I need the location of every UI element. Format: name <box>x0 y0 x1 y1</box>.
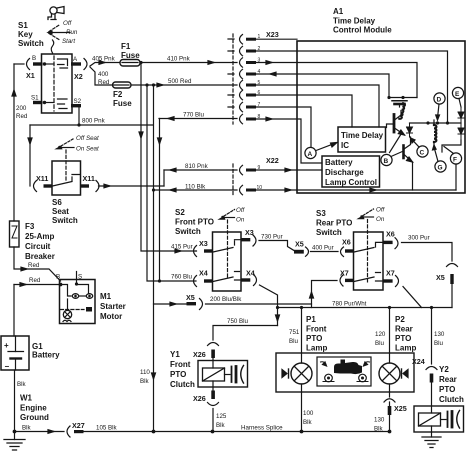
svg-text:Time Delay: Time Delay <box>333 17 376 26</box>
diode D1 <box>407 123 413 137</box>
svg-text:Discharge: Discharge <box>325 168 364 177</box>
bundle vertical: 410 Pnk branch down to 415 Pur <box>141 63 196 252</box>
node wire row <box>410 122 462 124</box>
capacitor C1 <box>392 100 407 102</box>
svg-text:IC: IC <box>341 141 349 150</box>
S3 terminal X6 right <box>383 241 393 244</box>
svg-text:X5: X5 <box>186 293 195 302</box>
svg-text:2: 2 <box>258 46 261 52</box>
lamps box <box>276 353 414 392</box>
svg-text:Fuse: Fuse <box>113 99 132 108</box>
svg-text:X5: X5 <box>295 240 304 249</box>
svg-text:120: 120 <box>375 331 386 338</box>
svg-text:P1: P1 <box>306 315 316 324</box>
transistor Q1 <box>393 115 396 133</box>
circled D <box>434 93 445 104</box>
wire 800 Pnk: seat switch riser to bundle <box>30 124 153 126</box>
S2 terminal X3 right <box>241 238 250 241</box>
wire 400 Pur: X5 to S3 X6 left <box>311 251 339 253</box>
S3 terminal X7 left <box>345 279 354 282</box>
battery plates <box>8 351 24 353</box>
svg-text:Y2: Y2 <box>439 365 449 374</box>
connector arc above Y1 <box>208 343 219 346</box>
svg-text:Control Module: Control Module <box>333 26 392 35</box>
X23 pin 6 arc and plug <box>240 90 243 100</box>
wire 110 Blk: X22 pin10 to long ground drop <box>154 189 238 191</box>
seat switch dashed actuator <box>65 150 67 182</box>
svg-text:P2: P2 <box>395 315 405 324</box>
svg-text:400 Pur: 400 Pur <box>312 245 334 252</box>
svg-text:Off: Off <box>63 20 73 27</box>
S6 connector arcs X11 <box>34 181 37 192</box>
svg-text:On: On <box>376 216 385 223</box>
svg-text:X2: X2 <box>74 72 83 81</box>
svg-text:Rear: Rear <box>395 325 413 334</box>
M1 internal motor <box>67 299 69 310</box>
wire: X2 split to F1 (405 Pnk) <box>90 63 120 67</box>
svg-text:Switch: Switch <box>175 227 201 236</box>
svg-text:S3: S3 <box>316 209 326 218</box>
bottom harness rail <box>15 431 65 433</box>
svg-text:Start: Start <box>62 38 75 45</box>
circled A <box>305 147 316 158</box>
svg-text:B: B <box>32 55 36 62</box>
svg-text:S6: S6 <box>52 198 62 207</box>
svg-text:800 Pnk: 800 Pnk <box>82 118 106 125</box>
Time Delay IC box <box>338 127 386 152</box>
Y1 solenoid coil <box>203 368 225 381</box>
Y1 front PTO clutch box <box>198 361 248 388</box>
svg-text:Off Seat: Off Seat <box>76 135 99 142</box>
S3 terminal X6 left <box>345 249 354 252</box>
svg-text:Engine: Engine <box>20 404 47 413</box>
svg-text:X11: X11 <box>36 174 48 183</box>
wire 730 Pur: X3 right to X5 plug <box>259 241 294 251</box>
connector X27 arc <box>67 426 70 437</box>
lamp P2 <box>379 363 400 384</box>
connector X2 (arc) <box>84 59 87 70</box>
resistor coil R1 <box>399 103 405 119</box>
svg-text:Harness Splice: Harness Splice <box>241 425 283 432</box>
X23 pin 7 arc and plug <box>240 102 243 112</box>
svg-text:5: 5 <box>258 80 261 86</box>
Y2 ground <box>431 432 433 437</box>
wire X5 tee / 200 Blu-Blk <box>154 303 187 305</box>
wire 120 Blu drop to P2 lamp <box>388 306 391 309</box>
svg-text:X3: X3 <box>245 228 254 237</box>
svg-text:110 Blk: 110 Blk <box>185 184 206 191</box>
tractor wheels <box>325 374 333 382</box>
wire 810 Pnk: X22 pin9 to seat switch <box>164 169 237 171</box>
svg-text:Lamp: Lamp <box>306 344 327 353</box>
svg-text:Front PTO: Front PTO <box>175 218 214 227</box>
svg-text:W1: W1 <box>20 394 33 403</box>
connector X5 plug (between S2 and S3) <box>294 250 304 254</box>
svg-text:Blk: Blk <box>216 422 226 429</box>
X23 pin stubs left (pins 1,2,4,6,7) <box>228 39 234 107</box>
connector arc below Y1 <box>208 403 219 406</box>
S3 rear PTO switch toggle <box>360 215 362 217</box>
svg-text:X6: X6 <box>386 230 395 239</box>
connector X24 plug <box>430 374 434 383</box>
svg-text:A: A <box>308 151 313 158</box>
wire 130 Blu drop to X24 <box>430 306 433 309</box>
svg-text:X26: X26 <box>193 394 206 403</box>
key switch terminal B <box>33 62 43 65</box>
circled F <box>450 153 461 164</box>
tractor silhouette <box>334 360 362 375</box>
svg-text:X27: X27 <box>72 421 85 430</box>
S6 seat switch body <box>52 161 81 195</box>
X23 pin 8 arc and plug <box>240 114 243 124</box>
svg-text:G: G <box>438 165 443 172</box>
svg-text:6: 6 <box>258 90 261 96</box>
lamp P1 <box>291 363 312 384</box>
connector X25 plug <box>388 406 392 415</box>
diode E2 <box>458 123 464 140</box>
svg-text:Key: Key <box>18 30 33 39</box>
svg-text:Switch: Switch <box>316 228 342 237</box>
svg-text:1: 1 <box>258 34 261 40</box>
seat switch toggle Off Seat / On Seat <box>58 146 61 149</box>
svg-text:810 Pnk: 810 Pnk <box>185 163 209 170</box>
wire down to 780 rail <box>451 284 453 308</box>
svg-text:Blu: Blu <box>375 340 385 347</box>
svg-text:Front: Front <box>306 325 327 334</box>
svg-text:PTO: PTO <box>170 370 186 379</box>
svg-text:B: B <box>384 158 389 165</box>
X23 pin 2 arc and plug <box>240 46 243 56</box>
S2 front PTO switch body <box>213 232 242 291</box>
connector arc after X5 plug <box>306 247 309 256</box>
svg-text:Switch: Switch <box>52 216 78 225</box>
svg-text:Red: Red <box>29 277 41 284</box>
svg-text:Time Delay: Time Delay <box>341 131 384 140</box>
S1 key switch body <box>42 54 73 113</box>
G1 battery box <box>1 336 29 370</box>
connector X5 right plug <box>450 274 453 284</box>
svg-text:X26: X26 <box>193 350 206 359</box>
wire battery + to M1 B terminal (Red) <box>14 284 61 286</box>
svg-text:110: 110 <box>140 369 150 376</box>
wire S2 X4 right diagonal down to 750 Blu <box>260 285 278 326</box>
wire S3 X7 right diagonal to 780 rail <box>403 287 422 308</box>
svg-text:X4: X4 <box>246 269 255 278</box>
svg-text:Starter: Starter <box>100 302 126 311</box>
tractor arrows <box>321 362 327 365</box>
svg-text:130: 130 <box>374 417 385 424</box>
svg-text:130: 130 <box>434 331 445 338</box>
M1 internal solenoid contacts <box>61 285 71 297</box>
svg-text:Fuse: Fuse <box>121 51 140 60</box>
wire F3 to M1 B terminal (Red) <box>14 247 61 281</box>
tractor pictogram box <box>317 357 371 386</box>
X23 pin 4 arc and plug <box>240 69 243 79</box>
svg-text:Blk: Blk <box>17 381 27 388</box>
svg-text:Front: Front <box>170 360 191 369</box>
S3 rear PTO switch body <box>354 232 384 290</box>
S3 connector arcs <box>341 247 344 257</box>
svg-text:C: C <box>420 150 425 157</box>
svg-text:Rear: Rear <box>439 375 457 384</box>
svg-text:On: On <box>236 217 245 224</box>
connector X5 arc (S2 lower) <box>200 299 203 310</box>
S3 terminal X7 right <box>383 279 393 282</box>
svg-text:125: 125 <box>216 413 227 420</box>
svg-text:Battery: Battery <box>325 158 353 167</box>
svg-text:S1: S1 <box>31 95 39 102</box>
svg-text:X23: X23 <box>266 30 279 39</box>
A1 module box <box>297 41 465 193</box>
svg-text:500 Red: 500 Red <box>168 78 192 85</box>
P1 lamp contact left <box>282 370 287 378</box>
svg-text:Off: Off <box>376 207 386 214</box>
svg-text:760 Blu: 760 Blu <box>171 274 193 281</box>
connector arc below P2 (X25) <box>384 399 395 402</box>
svg-text:Lamp Control: Lamp Control <box>325 178 377 187</box>
X22 pin 9 arc and plug <box>240 165 243 175</box>
svg-text:Motor: Motor <box>100 312 122 321</box>
svg-text:X6: X6 <box>342 238 351 247</box>
S2 terminal X3 left <box>204 249 213 252</box>
Battery Discharge Lamp Control box <box>322 156 380 187</box>
svg-text:X7: X7 <box>386 269 395 278</box>
connector X26 plug bottom <box>212 387 214 391</box>
svg-text:410 Pnk: 410 Pnk <box>167 56 191 63</box>
resistor coil R2 <box>434 125 436 142</box>
svg-text:X24: X24 <box>412 357 425 366</box>
svg-text:Battery: Battery <box>32 351 60 360</box>
svg-text:100: 100 <box>303 410 314 417</box>
wire Q1 emitter to B <box>390 133 403 153</box>
transistor Q2 <box>402 146 405 159</box>
svg-text:Y1: Y1 <box>170 350 180 359</box>
wavy lead from rotary to switch body <box>51 40 54 53</box>
svg-text:−: − <box>5 362 10 371</box>
connector arc X24 <box>426 367 437 370</box>
connector X27 plug <box>74 430 84 433</box>
S3 internal blades <box>354 242 383 252</box>
svg-text:F3: F3 <box>25 222 35 231</box>
svg-text:+: + <box>4 341 9 350</box>
M1 dashed plunger line <box>61 309 85 311</box>
M1 B junction <box>59 283 63 287</box>
svg-text:780 Pur/Wht: 780 Pur/Wht <box>332 301 367 308</box>
svg-text:PTO: PTO <box>395 334 411 343</box>
wire 500 Red: F2 output to X23 pin5 <box>131 84 237 86</box>
svg-text:Clutch: Clutch <box>439 395 464 404</box>
svg-text:F: F <box>453 157 457 164</box>
wire 770 Blu: X23 pin8 to bundle <box>159 118 237 120</box>
connector X1 (arc) <box>27 59 30 70</box>
svg-text:E: E <box>455 91 460 98</box>
svg-text:Blk: Blk <box>303 419 313 426</box>
svg-text:Off: Off <box>236 207 246 214</box>
fuse F1 <box>120 60 140 67</box>
svg-text:S2: S2 <box>175 208 185 217</box>
bundle vertical: 500 Red branch down to 760 Blu <box>147 85 196 281</box>
S1 key switch rotary positions Off/Run/Start <box>49 25 60 32</box>
M1 starter motor box <box>60 280 96 324</box>
wire: 800 Pnk riser down to seat switch X11 left <box>29 125 31 186</box>
X23 pin numbers <box>257 34 263 191</box>
svg-text:Blk: Blk <box>22 425 32 432</box>
wire 415 Pur into S2 X3 left <box>195 250 198 252</box>
svg-text:Run: Run <box>66 29 78 36</box>
svg-text:Blk: Blk <box>140 378 150 385</box>
svg-text:770 Blu: 770 Blu <box>183 112 205 119</box>
svg-text:On Seat: On Seat <box>76 146 99 153</box>
svg-text:8: 8 <box>258 114 261 120</box>
svg-text:Ground: Ground <box>20 413 49 422</box>
svg-text:751: 751 <box>289 329 300 336</box>
svg-text:X7: X7 <box>340 269 349 278</box>
Y2 rear PTO clutch box <box>414 406 464 432</box>
svg-text:S2: S2 <box>74 98 82 105</box>
circled C <box>417 146 428 157</box>
X23 connector dashed body <box>232 34 234 124</box>
svg-text:Breaker: Breaker <box>25 252 55 261</box>
svg-text:Switch: Switch <box>18 39 44 48</box>
svg-text:S1: S1 <box>18 21 28 30</box>
wire 300 Pur: X6 right to right drop <box>402 243 453 262</box>
svg-text:Blk: Blk <box>374 426 384 433</box>
svg-text:4: 4 <box>258 69 261 75</box>
S2 internal blades <box>213 240 241 252</box>
svg-text:105 Blk: 105 Blk <box>96 425 118 432</box>
wire 750 Blu to Y1 <box>213 326 278 341</box>
wire 125 Blk Y1 to rail <box>212 409 214 432</box>
svg-text:7: 7 <box>258 102 261 108</box>
bundle vertical: 110 Blk drop to rail with X5 tee <box>153 85 155 432</box>
rail continues to X25 <box>84 431 390 433</box>
svg-text:Red: Red <box>28 262 40 269</box>
svg-text:D: D <box>437 97 442 104</box>
X23 pin 5 arc and plug <box>240 80 243 90</box>
svg-text:X4: X4 <box>199 269 208 278</box>
svg-text:PTO: PTO <box>439 385 455 394</box>
X23 pin 1 arc and plug <box>240 35 243 45</box>
svg-text:200 Blu/Blk: 200 Blu/Blk <box>210 296 242 303</box>
module capacitor node wire <box>389 97 417 99</box>
connector X5 right arc <box>447 264 458 267</box>
S2 connector arcs <box>194 246 197 257</box>
svg-text:405 Pnk: 405 Pnk <box>92 56 116 63</box>
wire battery - to ground rail <box>14 370 16 432</box>
svg-text:Lamp: Lamp <box>395 344 416 353</box>
svg-text:X25: X25 <box>394 404 407 413</box>
wire 751 Blu drop to P1 lamp <box>300 306 303 309</box>
svg-text:X22: X22 <box>266 156 279 165</box>
svg-text:F2: F2 <box>113 90 123 99</box>
svg-text:X11: X11 <box>83 174 95 183</box>
circled B <box>381 154 392 165</box>
wire: left vertical 200 Red down to F3 <box>13 64 15 221</box>
svg-text:400: 400 <box>98 71 109 78</box>
wire 100 Blk P1 to rail <box>301 392 303 432</box>
wire 780 Pur/Wht rail <box>278 307 453 309</box>
svg-text:730 Pur: 730 Pur <box>261 234 283 241</box>
wire diode column to F <box>442 140 461 152</box>
key switch terminal S2 <box>71 104 81 107</box>
module wire: pin2 drop junctions <box>446 121 449 124</box>
S2 front PTO switch toggle <box>221 216 223 218</box>
S2 terminal X4 left <box>204 279 213 282</box>
svg-text:200: 200 <box>16 105 27 112</box>
S2 terminal X4 right <box>241 278 250 281</box>
wire: X1 to left vertical <box>14 63 24 65</box>
P2 lamp contact right <box>403 370 408 378</box>
S6 internal blade <box>53 182 73 187</box>
diode E1 <box>458 107 464 123</box>
svg-text:9: 9 <box>258 165 261 171</box>
wire 410 Pnk: F1 output to X23 pin3 <box>140 62 237 64</box>
svg-text:Seat: Seat <box>52 207 69 216</box>
wire: key S2 terminal drop to 800 Pnk <box>78 108 80 126</box>
wire: X2 split down to F2 (400 Red) <box>90 67 113 85</box>
X23 pin 3 arc and plug <box>240 58 243 67</box>
W1 engine ground symbol <box>13 430 17 434</box>
svg-text:415 Pur: 415 Pur <box>171 244 193 251</box>
svg-text:Blu: Blu <box>289 338 299 345</box>
module bottom rail <box>297 189 456 191</box>
circled E <box>452 87 463 98</box>
svg-text:750 Blu: 750 Blu <box>227 318 249 325</box>
fuse F2 <box>113 82 132 88</box>
svg-text:M1: M1 <box>100 292 112 301</box>
wire 200 Blu/Blk continues right <box>206 303 312 305</box>
Y2 solenoid coil <box>419 413 441 426</box>
svg-text:X1: X1 <box>26 71 35 80</box>
wire seat switch X11 right to 810 Pnk riser <box>99 185 165 187</box>
bundle vertical: 770 Blu branch down to 760 Blu <box>159 119 161 282</box>
svg-text:X5: X5 <box>436 273 445 282</box>
S6 terminals <box>44 184 53 187</box>
connector X5 plug (S2 lower) <box>187 302 197 305</box>
key switch terminal S1 <box>33 101 43 104</box>
svg-text:S: S <box>78 274 82 281</box>
svg-text:X3: X3 <box>199 239 208 248</box>
svg-text:10: 10 <box>257 185 263 191</box>
M1 S terminal stub <box>76 272 78 285</box>
X22 pin 10 arc and plug <box>240 185 243 195</box>
svg-text:Blu: Blu <box>434 340 444 347</box>
svg-text:Clutch: Clutch <box>170 380 195 389</box>
svg-text:Circuit: Circuit <box>25 242 51 251</box>
svg-text:B: B <box>56 274 60 281</box>
key switch terminal A <box>71 62 81 65</box>
circled G <box>435 161 446 172</box>
connector X26 plug top <box>211 350 215 359</box>
key icon (S1 pictogram) <box>48 7 64 20</box>
F3 circuit breaker <box>10 221 20 247</box>
svg-text:Rear PTO: Rear PTO <box>316 219 352 228</box>
svg-text:Red: Red <box>16 113 28 120</box>
svg-text:Red: Red <box>98 79 110 86</box>
svg-text:300 Pur: 300 Pur <box>408 235 430 242</box>
svg-text:25-Amp: 25-Amp <box>25 232 54 241</box>
svg-text:3: 3 <box>258 58 261 64</box>
svg-text:F1: F1 <box>121 42 131 51</box>
X22 connector dashed body <box>232 164 234 196</box>
svg-text:PTO: PTO <box>306 334 322 343</box>
key switch internal contacts <box>43 62 46 65</box>
svg-text:A1: A1 <box>333 7 344 16</box>
wire S3 X7 left feed from 780 rail <box>312 281 338 308</box>
